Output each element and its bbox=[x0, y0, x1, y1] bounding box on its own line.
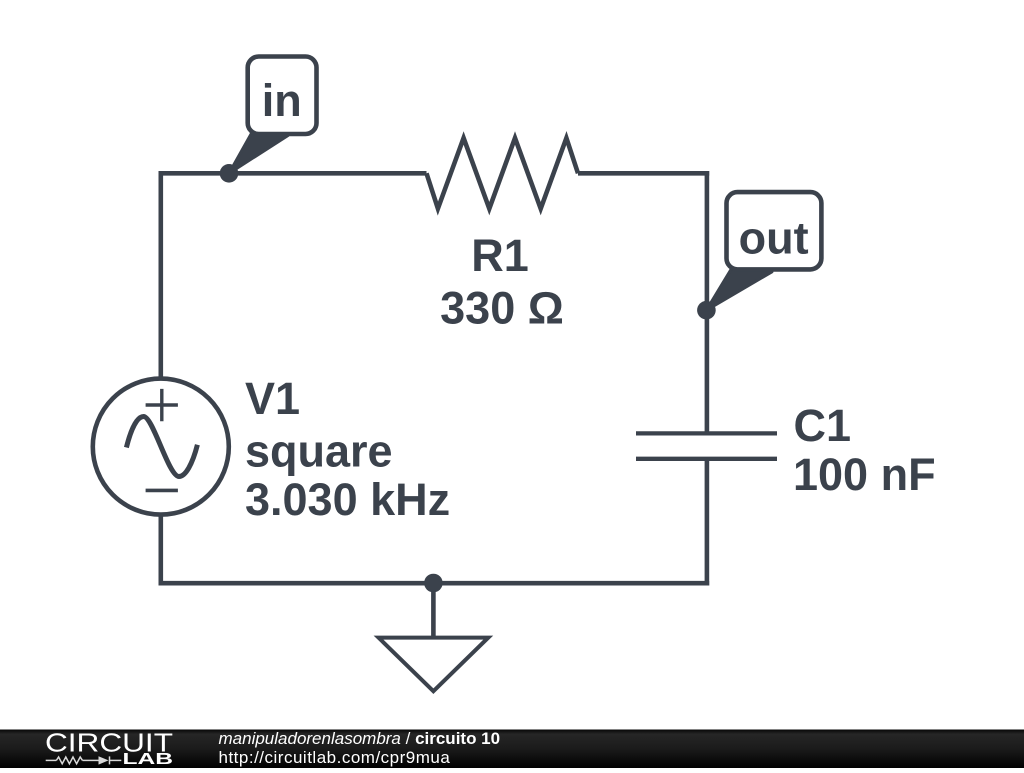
footer logo wire with resistor and diode bbox=[46, 756, 122, 764]
wire: left vertical upper (in node to V1 top) bbox=[159, 171, 164, 380]
flag box for node out bbox=[727, 192, 822, 269]
wire: bottom horizontal (V1 bottom corner to C1) bbox=[159, 581, 710, 586]
voltage source V1 circle bbox=[93, 379, 229, 515]
node junction: out bbox=[697, 301, 716, 320]
wire: left vertical lower (V1 bottom to corner) bbox=[159, 514, 164, 586]
svg-text:in: in bbox=[262, 75, 302, 126]
V1 plus sign bbox=[146, 389, 178, 421]
node junction: ground bbox=[424, 574, 443, 593]
wire: right vertical (corner to C1 top plate) bbox=[705, 171, 710, 433]
svg-text:3.030 kHz: 3.030 kHz bbox=[245, 474, 450, 525]
resistor R1 zigzag body bbox=[427, 138, 579, 209]
svg-text:R1: R1 bbox=[471, 230, 529, 281]
svg-text:out: out bbox=[739, 213, 809, 264]
svg-text:square: square bbox=[245, 425, 393, 476]
node junction: in bbox=[220, 164, 239, 183]
ground symbol triangle bbox=[379, 638, 489, 692]
svg-text:LAB: LAB bbox=[123, 751, 174, 768]
wire: top horizontal (R1 right lead to out corner) bbox=[578, 171, 709, 176]
svg-text:C1: C1 bbox=[794, 400, 852, 451]
capacitor C1 bottom plate bbox=[636, 457, 777, 461]
ground stub wire bbox=[431, 583, 436, 637]
footer black bar bbox=[0, 730, 1024, 769]
svg-text:330 Ω: 330 Ω bbox=[440, 283, 564, 334]
svg-text:V1: V1 bbox=[245, 373, 300, 424]
flag box for node in bbox=[248, 57, 317, 135]
svg-text:manipuladorenlasombra / circui: manipuladorenlasombra / circuito 10 bbox=[219, 729, 501, 748]
V1 minus sign bbox=[146, 489, 178, 493]
flag tail for node in bbox=[229, 132, 288, 174]
svg-text:100 nF: 100 nF bbox=[793, 449, 936, 500]
capacitor C1 top plate bbox=[636, 431, 777, 435]
wire: top horizontal (in node to R1 left lead) bbox=[159, 171, 427, 176]
svg-text:http://circuitlab.com/cpr9mua: http://circuitlab.com/cpr9mua bbox=[219, 748, 451, 767]
wire: right vertical (C1 bottom plate to bottom wire) bbox=[705, 459, 710, 586]
V1 sine wave bbox=[126, 417, 197, 477]
footer logo diode triangle bbox=[99, 756, 109, 764]
flag tail for node out bbox=[706, 267, 772, 310]
